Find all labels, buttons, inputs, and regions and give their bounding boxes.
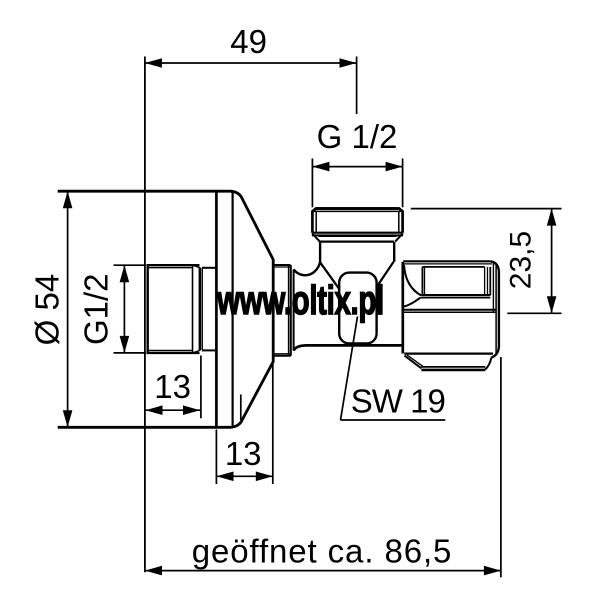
dome curve upper xyxy=(404,265,421,296)
nut recess left verticals xyxy=(421,267,423,296)
ring right verticals xyxy=(288,265,290,356)
top thread block top edge xyxy=(316,207,399,210)
geoeffnet arrow right xyxy=(484,566,501,576)
male thread chamfer slants xyxy=(193,265,200,353)
flange front face line xyxy=(215,191,218,427)
23,5 arrow down xyxy=(547,296,557,313)
nut recess top line xyxy=(422,266,484,268)
body left face xyxy=(293,269,295,350)
svg-text:49: 49 xyxy=(230,23,267,60)
svg-text:G1/2: G1/2 xyxy=(78,273,115,345)
G1/2 left extension lines xyxy=(114,265,147,353)
male thread inner relief lines xyxy=(148,268,193,351)
13 second arrow left xyxy=(217,472,234,482)
dimension 49 arrow left xyxy=(145,58,162,68)
nut cap inner vertical xyxy=(495,264,497,356)
male thread right double edge xyxy=(201,268,203,350)
nut skirt right curve xyxy=(485,358,491,369)
nut band lines xyxy=(403,309,497,311)
top connection neck left xyxy=(319,242,321,263)
svg-text:Ø 54: Ø 54 xyxy=(29,274,66,346)
dimension G 1/2 top line xyxy=(312,166,402,168)
flange small edge line bottom xyxy=(240,395,242,421)
Ø54 arrow up xyxy=(63,191,73,208)
top block skirt lines xyxy=(318,235,396,237)
svg-text:13: 13 xyxy=(154,368,191,405)
dimension 23,5 extension lines xyxy=(411,209,562,314)
body bottom line with corner xyxy=(294,345,403,350)
svg-text:SW 19: SW 19 xyxy=(351,383,445,420)
nut lower bottom edge xyxy=(404,353,493,355)
13 first arrow left xyxy=(146,405,163,415)
wall flange disc outline xyxy=(58,191,274,427)
extension line right of 49 xyxy=(356,57,358,115)
G1/2 left arrow up xyxy=(120,265,130,282)
ring bottom edge xyxy=(274,355,291,357)
nut skirt bottom lines xyxy=(421,366,485,368)
shank top line xyxy=(202,267,216,269)
G1/2 top arrow left xyxy=(312,162,329,172)
geoeffnet extension right xyxy=(500,357,502,577)
nut top edges xyxy=(403,260,490,262)
top block skirt slants xyxy=(312,233,403,241)
dimension G1/2 left line xyxy=(123,265,125,353)
male thread outer xyxy=(147,265,200,353)
dimension 13 second line xyxy=(217,475,273,477)
svg-text:13: 13 xyxy=(225,435,262,472)
top thread block bottom lines xyxy=(312,232,402,234)
13 first arrow right xyxy=(183,405,200,415)
23,5 arrow up xyxy=(547,209,557,226)
body top fillet dip xyxy=(294,262,321,275)
svg-text:geöffnet ca. 86,5: geöffnet ca. 86,5 xyxy=(192,533,453,570)
dimension 49 line xyxy=(145,62,357,64)
dimension 23,5 line xyxy=(551,209,553,314)
top connection neck right xyxy=(393,242,395,262)
top thread block chamfer verticals xyxy=(316,211,399,232)
13 second arrow right xyxy=(256,472,273,482)
svg-text:www.oltix.pl: www.oltix.pl xyxy=(216,277,384,323)
dimension geoeffnet line xyxy=(145,570,501,572)
G1/2 top arrow right xyxy=(386,162,403,172)
ring top edges xyxy=(274,264,291,266)
male thread chamfer vertical xyxy=(192,265,194,353)
V slant left xyxy=(320,262,339,289)
nut recess right verticals xyxy=(485,267,488,295)
SW 19 leader line xyxy=(341,317,358,421)
dome curve lower xyxy=(403,298,420,307)
13 first extension right xyxy=(200,356,202,419)
SW 19 underline xyxy=(341,419,446,421)
dimension 13 first line xyxy=(146,409,201,411)
extension line left long (wall plane) xyxy=(144,57,146,573)
svg-text:G 1/2: G 1/2 xyxy=(317,118,398,155)
G1/2 top extension lines xyxy=(312,159,402,208)
dimension Ø54 line xyxy=(67,191,69,427)
nut skirt chamfer left xyxy=(405,356,422,369)
flange rim line xyxy=(232,191,234,427)
G1/2 left arrow down xyxy=(120,336,130,353)
V slant right xyxy=(376,262,393,288)
geoeffnet arrow left xyxy=(145,566,162,576)
13 second extension lines xyxy=(216,364,272,484)
Ø54 arrow down xyxy=(63,410,73,427)
nut left edge xyxy=(401,262,404,354)
dimension 49 arrow right xyxy=(340,58,357,68)
nut cap outer xyxy=(491,261,499,358)
shank bottom line xyxy=(202,349,216,351)
top thread block inner top line xyxy=(312,210,402,212)
nut recess bottom lines xyxy=(421,294,490,296)
top thread block outer xyxy=(312,209,402,233)
oval slot (SW19) xyxy=(339,273,376,344)
svg-text:23,5: 23,5 xyxy=(505,231,538,289)
